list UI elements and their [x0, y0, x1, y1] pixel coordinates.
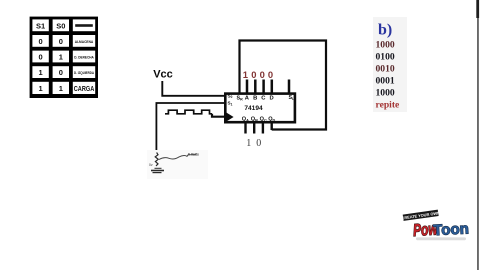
svg-text:0: 0 [251, 69, 256, 80]
svg-text:1: 1 [243, 69, 248, 80]
svg-text:0: 0 [260, 69, 265, 80]
svg-text:b): b) [378, 22, 392, 39]
ground area faint frame [147, 150, 208, 179]
pin QB (bottom) [253, 123, 255, 134]
svg-text:1: 1 [59, 52, 63, 61]
svg-text:0: 0 [59, 37, 63, 46]
wire clock to CLK pin [212, 114, 226, 117]
red parallel input value 1 0 0 0 [243, 69, 273, 80]
svg-text:0010: 0010 [376, 64, 395, 75]
pin QA (bottom) [244, 123, 246, 134]
svg-text:S0: S0 [228, 93, 233, 99]
svg-text:0: 0 [39, 37, 43, 46]
svg-text:D. IZQUIERDA: D. IZQUIERDA [74, 71, 94, 75]
svg-text:1: 1 [39, 68, 43, 77]
svg-text:1: 1 [59, 84, 63, 93]
annotation wavy line to 0 Volts [159, 153, 199, 160]
svg-text:CREATE YOUR OWN: CREATE YOUR OWN [401, 210, 440, 220]
pin B (top) [254, 80, 257, 94]
svg-text:repite: repite [376, 100, 401, 111]
svg-text:Toon: Toon [433, 220, 469, 239]
svg-text:1: 1 [39, 84, 43, 93]
svg-text:ALMACENA: ALMACENA [75, 40, 94, 44]
svg-text:1 0: 1 0 [246, 138, 262, 149]
svg-text:0001: 0001 [376, 76, 395, 87]
svg-text:S0: S0 [56, 22, 65, 31]
clock waveform source [165, 110, 212, 114]
wire S1 pin to ground [156, 103, 226, 159]
svg-text:B: B [253, 95, 257, 101]
svg-text:0: 0 [268, 69, 273, 80]
svg-text:0100: 0100 [376, 52, 395, 63]
pin D (top) [271, 80, 274, 94]
svg-text:0 Volts: 0 Volts [188, 153, 199, 157]
svg-text:0: 0 [39, 52, 43, 61]
pin QD (bottom) [271, 123, 273, 130]
pin A (top) [246, 80, 249, 94]
svg-text:0: 0 [59, 68, 63, 77]
pin C (top) [262, 80, 265, 94]
IC U1 74194 [225, 93, 295, 122]
pin SL (top) [288, 80, 291, 94]
answer sequence list [376, 40, 401, 111]
answer list background [373, 17, 407, 112]
svg-text:CARGA: CARGA [74, 86, 95, 93]
svg-text:S1: S1 [36, 22, 45, 31]
truth table S1/S0 function table [30, 17, 98, 98]
watermark shadow [416, 237, 466, 240]
svg-text:D: D [270, 95, 274, 101]
svg-text:1000: 1000 [376, 40, 395, 51]
svg-text:D. DERECHA: D. DERECHA [74, 56, 94, 60]
right edge border line [477, 0, 479, 270]
svg-text:0v: 0v [149, 163, 153, 167]
ground symbol [151, 153, 164, 173]
svg-text:Vcc: Vcc [153, 69, 173, 81]
wire Vcc to S0 pin [162, 81, 226, 96]
svg-text:74194: 74194 [244, 105, 263, 112]
PowToon watermark [401, 209, 469, 240]
pin QC (bottom) [262, 123, 264, 134]
svg-text:S1: S1 [228, 101, 233, 107]
svg-text:1000: 1000 [376, 88, 395, 99]
feedback wire QD to SR [240, 41, 327, 130]
